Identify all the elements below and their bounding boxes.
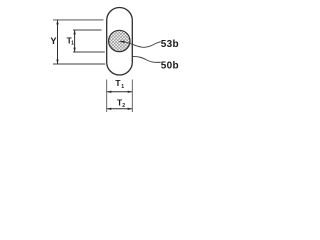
dimension T1 left arrow top: [73, 30, 75, 34]
leader line 53b: [124, 42, 161, 48]
dimension Y arrow top: [56, 20, 58, 24]
svg-text:1: 1: [121, 84, 124, 90]
capsule 50b: [107, 7, 133, 75]
bottom extension line right: [131, 80, 133, 113]
dimension T1 left extension line bottom: [73, 51, 105, 53]
svg-text:1: 1: [71, 40, 74, 46]
dimension Y extension line bottom: [53, 63, 105, 65]
svg-text:50b: 50b: [161, 60, 179, 71]
dimension T1 bottom line: [107, 91, 133, 93]
bottom extension line left: [106, 80, 108, 113]
dimension Y arrow bottom: [56, 60, 58, 64]
dimension T1 bottom arrow right: [128, 91, 132, 93]
dimension T1 bottom arrow left: [107, 91, 111, 93]
dimension T2 bottom arrow left: [107, 108, 111, 110]
dimension T1 left line: [74, 30, 76, 52]
dimension T2 bottom arrow right: [128, 108, 132, 110]
leader arrowhead 53b: [118, 41, 124, 43]
dimension Y line: [57, 20, 59, 64]
hatched circle 53b: [109, 30, 130, 51]
leader line 50b: [133, 57, 161, 63]
svg-text:Y: Y: [50, 36, 56, 46]
dimension T2 bottom line: [107, 108, 133, 110]
dimension T1 left arrow bottom: [73, 48, 75, 52]
svg-text:53b: 53b: [161, 39, 179, 50]
dimension T1 left extension line top: [73, 29, 102, 31]
dimension Y extension line top: [53, 19, 104, 21]
svg-text:2: 2: [122, 103, 125, 109]
